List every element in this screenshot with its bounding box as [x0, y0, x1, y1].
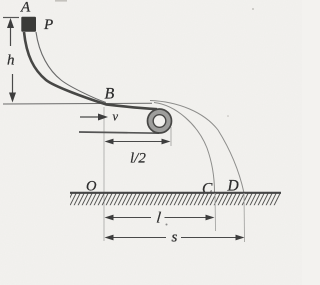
scan speck top edge	[55, 0, 67, 2]
svg-text:P: P	[43, 17, 53, 33]
h dimension down arrow	[12, 74, 14, 100]
l dimension arrow	[106, 217, 212, 219]
svg-text:A: A	[20, 0, 31, 16]
l/2 dimension arrow	[106, 141, 169, 143]
svg-text:s: s	[172, 230, 178, 246]
roller outer	[148, 109, 172, 133]
scan speck right	[252, 8, 254, 10]
ground hatching	[62, 193, 281, 206]
block P	[21, 17, 36, 32]
ground top line	[70, 192, 281, 194]
left extension line	[103, 107, 105, 241]
D extension line	[243, 193, 246, 242]
svg-text:h: h	[7, 53, 15, 69]
svg-text:B: B	[105, 86, 115, 103]
trajectory to C	[154, 103, 215, 193]
v arrow	[80, 116, 103, 118]
C extension line	[214, 193, 217, 231]
slide inner curve	[36, 32, 106, 103]
roller hole	[153, 115, 166, 128]
h dimension up arrow	[10, 20, 12, 46]
svg-text:v: v	[113, 110, 119, 124]
table bottom line	[79, 132, 159, 133]
baseline at B level	[3, 102, 152, 105]
h dimension top tick	[3, 17, 19, 19]
s dimension arrow	[106, 237, 242, 239]
svg-text:l/2: l/2	[130, 151, 146, 167]
l label dot	[166, 224, 168, 226]
trajectory to D	[150, 101, 244, 193]
scan speck mid	[227, 115, 229, 117]
l/2 extension right tick	[170, 127, 172, 146]
slide outer curve	[24, 32, 157, 109]
